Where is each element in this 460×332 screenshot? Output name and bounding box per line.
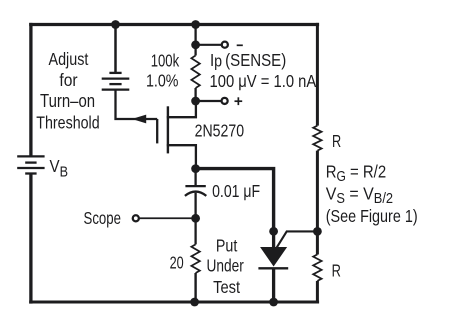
label Scope	[84, 209, 122, 228]
transistor Q1 drain lead	[167, 101, 196, 117]
node junction R1 top / minus sense lead	[191, 40, 200, 49]
wire left rail lower segment	[29, 174, 32, 304]
wire scope terminal to junction	[140, 217, 196, 219]
wire bottom rail	[29, 300, 319, 303]
label Test	[213, 277, 240, 297]
wire battery B1 to gate of Q1	[116, 90, 158, 119]
battery B1 adjustable turn-on threshold source	[102, 73, 130, 90]
svg-text:VB: VB	[50, 156, 68, 180]
node junction R1 bottom / drain / plus sense lead	[191, 97, 200, 106]
wire top rail	[29, 23, 319, 26]
svg-text:Test: Test	[213, 277, 240, 297]
node junction SCR anode / gate route	[269, 227, 278, 236]
svg-text:Threshold: Threshold	[36, 113, 99, 133]
transistor Q1 gate plate	[156, 119, 158, 143]
wire SCR gate to divider midpoint	[277, 231, 318, 247]
svg-text:(See Figure 1): (See Figure 1)	[326, 206, 418, 226]
label minus sign	[237, 44, 243, 46]
wire right rail upper segment	[316, 23, 319, 126]
svg-text:Turn–on: Turn–on	[40, 91, 95, 112]
svg-text:2N5270: 2N5270	[195, 121, 244, 141]
wire junction to capacitor C1	[194, 169, 196, 186]
SCR cathode bar	[258, 267, 288, 269]
svg-text:Scope: Scope	[84, 209, 122, 228]
svg-text:1.0%: 1.0%	[146, 71, 178, 91]
resistor R1 100k	[191, 45, 199, 101]
node junction top rail / battery B1	[111, 20, 120, 29]
wire top rail to adjustable battery B1	[114, 25, 117, 73]
label 100k	[151, 52, 180, 71]
wire capacitor to scope junction	[194, 193, 196, 219]
wire right rail lower segment	[316, 281, 319, 304]
svg-text:VS = VB/2: VS = VB/2	[326, 183, 393, 206]
label 2N5270	[195, 121, 244, 141]
svg-text:100 μV = 1.0 nA: 100 μV = 1.0 nA	[210, 72, 317, 92]
svg-text:Adjust: Adjust	[49, 49, 89, 69]
wire to plus sense terminal	[196, 100, 222, 102]
node junction source / capacitor / SCR route	[191, 164, 200, 173]
wire top rail to resistor R1	[194, 25, 196, 45]
SCR under test anode triangle	[261, 248, 285, 266]
label 1.0%	[146, 71, 178, 91]
label RG = R/2	[326, 161, 386, 184]
wire scope junction to resistor R4	[194, 218, 196, 244]
svg-text:Ip (SENSE): Ip (SENSE)	[210, 50, 286, 71]
svg-text:100k: 100k	[151, 52, 180, 71]
node junction top rail / R1	[191, 20, 200, 29]
label Ip (SENSE)	[210, 50, 286, 71]
wire left rail upper segment	[29, 23, 32, 156]
label Threshold	[36, 113, 99, 133]
svg-text:0.01 μF: 0.01 μF	[212, 181, 260, 201]
node junction right rail / SCR gate	[313, 227, 322, 236]
transistor Q1 source lead	[167, 145, 196, 168]
node junction bottom rail / R4	[190, 298, 199, 307]
label 20	[170, 253, 184, 273]
arrowhead wiper arrow on gate wire	[134, 115, 146, 122]
wire right rail middle segment	[316, 151, 319, 255]
label (See Figure 1)	[326, 206, 418, 226]
wire SCR cathode to bottom rail	[272, 268, 275, 303]
svg-text:Put: Put	[216, 236, 238, 256]
terminal plus sense	[222, 98, 228, 104]
label 0.01 uF	[212, 181, 260, 201]
wire SCR anode	[272, 231, 275, 248]
svg-text:RG = R/2: RG = R/2	[326, 161, 386, 184]
node junction scope / capacitor / R4	[191, 214, 200, 223]
label VS = VB/2	[326, 183, 393, 206]
label R lower	[332, 262, 341, 282]
label VB	[50, 156, 68, 180]
wire source junction to SCR anode	[196, 169, 274, 232]
svg-text:R: R	[332, 132, 341, 152]
transistor Q1 channel bar	[167, 106, 169, 153]
battery B2 VB	[17, 156, 44, 173]
label plus sign	[235, 97, 243, 105]
svg-text:Under: Under	[207, 257, 245, 276]
svg-text:20: 20	[170, 253, 184, 273]
node junction bottom rail / SCR cathode	[269, 298, 278, 307]
label Adjust	[49, 49, 89, 69]
resistor R2 upper R	[313, 126, 321, 151]
resistor R3 lower R	[313, 254, 321, 281]
label Put	[216, 236, 238, 256]
wire to minus sense terminal	[196, 44, 222, 46]
terminal minus sense	[222, 42, 228, 48]
resistor R4 20 ohm	[191, 244, 199, 302]
svg-text:R: R	[332, 262, 341, 282]
label R upper	[332, 132, 341, 152]
label Turn-on	[40, 91, 95, 112]
terminal Scope probe	[133, 215, 139, 221]
label for	[59, 70, 78, 90]
svg-text:for: for	[59, 70, 78, 90]
label Under	[207, 257, 245, 276]
label 100 uV = 1.0 nA	[210, 72, 317, 92]
capacitor C1	[185, 186, 206, 196]
